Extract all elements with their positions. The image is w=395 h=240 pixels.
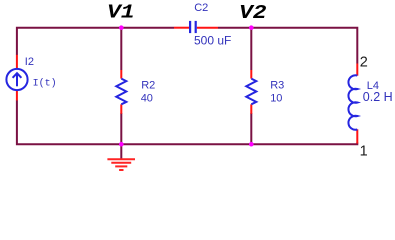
capacitor C2 [174,21,218,33]
wire V2 branch vertical [250,28,252,70]
junction dot bottom V2 [249,142,254,147]
svg-text:R3: R3 [270,79,284,91]
wire V1 branch vertical [120,28,122,70]
junction dot bottom V1 [119,142,124,147]
wire top-left corner to capacitor left lead [17,28,174,55]
resistor R2 [116,70,126,114]
wire bottom rail [17,100,357,144]
wire ground stub [120,144,122,159]
svg-text:I(t): I(t) [33,77,57,89]
svg-text:R2: R2 [141,79,155,91]
wire top segment V2 to top-right corner [218,28,357,64]
node V2 junction dot [249,25,254,30]
svg-text:V2: V2 [239,2,267,24]
svg-text:1: 1 [360,143,368,159]
svg-text:500 uF: 500 uF [194,33,231,47]
current source I2 [6,55,27,101]
node V1 junction dot [119,25,124,30]
ground [107,159,135,170]
svg-text:10: 10 [270,92,282,104]
wire V2 branch lower [250,113,252,144]
resistor R3 [246,70,256,114]
svg-text:40: 40 [141,92,153,104]
svg-text:V1: V1 [107,2,135,24]
svg-text:0.2 H: 0.2 H [363,90,393,104]
svg-text:2: 2 [360,55,368,71]
svg-text:C2: C2 [194,2,208,14]
inductor L4 [348,64,357,144]
wire V1 branch lower [120,113,122,144]
svg-text:I2: I2 [25,56,34,68]
